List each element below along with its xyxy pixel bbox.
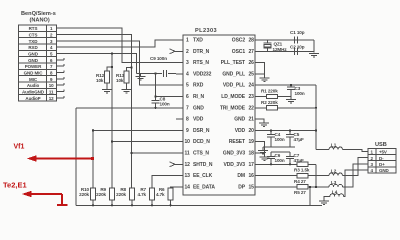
svg-text:7: 7: [50, 64, 53, 69]
svg-text:RTS: RTS: [29, 26, 38, 31]
svg-text:R2 220k: R2 220k: [261, 100, 278, 105]
svg-text:(NANO): (NANO): [30, 18, 50, 24]
svg-text:17: 17: [249, 162, 255, 168]
svg-text:10: 10: [49, 83, 54, 88]
svg-text:Te2,E1: Te2,E1: [3, 181, 27, 190]
svg-text:1: 1: [371, 150, 374, 155]
svg-text:USB: USB: [375, 142, 387, 148]
svg-text:6: 6: [50, 58, 53, 63]
svg-text:6: 6: [186, 94, 189, 100]
svg-text:+5V: +5V: [379, 150, 387, 155]
svg-text:3: 3: [50, 39, 53, 44]
svg-text:220k: 220k: [116, 192, 126, 197]
svg-text:GND: GND: [193, 105, 204, 111]
svg-text:18: 18: [249, 151, 255, 157]
svg-text:AudioGND: AudioGND: [22, 90, 45, 95]
svg-text:10k: 10k: [96, 78, 104, 83]
svg-text:R3 1.5k: R3 1.5k: [294, 168, 310, 173]
svg-text:RTS_N: RTS_N: [193, 60, 209, 66]
svg-text:13: 13: [185, 173, 191, 179]
svg-text:2: 2: [371, 156, 374, 161]
svg-text:Vf1: Vf1: [14, 144, 25, 151]
svg-text:BenQ/Siem-s: BenQ/Siem-s: [21, 11, 56, 17]
svg-text:Audio: Audio: [27, 83, 40, 88]
svg-text:TXD: TXD: [193, 38, 203, 44]
svg-text:LD_MODE: LD_MODE: [221, 94, 246, 100]
svg-text:C2 10p: C2 10p: [290, 45, 305, 50]
svg-text:28: 28: [249, 38, 255, 44]
svg-text:5: 5: [50, 52, 53, 57]
svg-text:26: 26: [249, 60, 255, 66]
svg-text:RXD: RXD: [28, 45, 38, 50]
svg-text:GND MIC: GND MIC: [24, 71, 44, 76]
svg-text:TXD: TXD: [29, 39, 39, 44]
svg-text:4.7k: 4.7k: [137, 192, 146, 197]
svg-text:24: 24: [249, 83, 255, 89]
svg-text:100n: 100n: [295, 91, 305, 96]
svg-text:PL2303: PL2303: [195, 28, 217, 34]
svg-text:4: 4: [186, 71, 189, 77]
svg-text:14: 14: [185, 184, 191, 190]
svg-text:PLL_TEST: PLL_TEST: [221, 60, 245, 66]
svg-text:22: 22: [249, 105, 255, 111]
svg-text:VDD_3V3: VDD_3V3: [223, 162, 245, 168]
svg-text:TRI_MODE: TRI_MODE: [220, 105, 246, 111]
svg-text:12: 12: [49, 96, 54, 101]
svg-text:OSC2: OSC2: [232, 38, 246, 44]
svg-text:GND_3V3: GND_3V3: [223, 151, 245, 157]
svg-text:1: 1: [50, 26, 53, 31]
svg-text:VDD: VDD: [193, 117, 204, 123]
svg-text:RESET: RESET: [229, 139, 245, 145]
svg-text:AudioP: AudioP: [25, 96, 40, 101]
svg-text:QZ1: QZ1: [274, 42, 283, 47]
svg-text:220k: 220k: [79, 192, 89, 197]
svg-text:EE_DATA: EE_DATA: [193, 184, 215, 190]
svg-text:D-: D-: [379, 156, 384, 161]
svg-text:47µF: 47µF: [294, 158, 304, 163]
svg-text:L4: L4: [332, 189, 338, 194]
svg-text:4: 4: [371, 168, 374, 173]
svg-text:EE_CLK: EE_CLK: [193, 173, 213, 179]
svg-text:CTS_N: CTS_N: [193, 151, 209, 157]
svg-text:100n: 100n: [160, 102, 170, 107]
svg-text:4.7k: 4.7k: [156, 192, 165, 197]
svg-text:C9 100n: C9 100n: [150, 56, 167, 61]
svg-text:5: 5: [186, 83, 189, 89]
svg-text:GND: GND: [234, 117, 245, 123]
svg-text:11: 11: [49, 90, 54, 95]
svg-text:220k: 220k: [96, 192, 106, 197]
svg-text:9: 9: [50, 77, 53, 82]
svg-text:SHTD_N: SHTD_N: [193, 162, 213, 168]
svg-text:27: 27: [249, 49, 255, 55]
svg-text:15: 15: [249, 184, 255, 190]
svg-text:L3: L3: [331, 180, 337, 185]
svg-text:16: 16: [249, 173, 255, 179]
svg-text:D+: D+: [379, 162, 385, 167]
svg-text:GND: GND: [28, 52, 39, 57]
svg-text:POWER: POWER: [25, 64, 42, 69]
svg-text:GND: GND: [28, 58, 39, 63]
svg-text:8: 8: [186, 117, 189, 123]
svg-text:R5 27: R5 27: [294, 190, 306, 195]
svg-text:19: 19: [249, 139, 255, 145]
svg-text:VDD_PLL: VDD_PLL: [223, 83, 245, 89]
svg-text:VDD232: VDD232: [193, 71, 212, 77]
svg-text:GND: GND: [379, 168, 390, 173]
svg-text:DM: DM: [237, 173, 245, 179]
svg-text:100n: 100n: [275, 137, 285, 142]
svg-text:OSC1: OSC1: [232, 49, 246, 55]
svg-text:DCD_N: DCD_N: [193, 139, 210, 145]
svg-text:10: 10: [185, 139, 191, 145]
svg-text:8: 8: [50, 71, 53, 76]
svg-text:CTS: CTS: [29, 33, 38, 38]
svg-text:VDD: VDD: [235, 128, 246, 134]
svg-text:R4 27: R4 27: [294, 179, 306, 184]
svg-text:7: 7: [186, 105, 189, 111]
svg-text:12MHz: 12MHz: [273, 47, 288, 52]
svg-text:DTR_N: DTR_N: [193, 49, 210, 55]
svg-text:1: 1: [186, 38, 189, 44]
svg-text:11: 11: [185, 151, 190, 157]
svg-text:RI_N: RI_N: [193, 94, 204, 100]
svg-text:DP: DP: [238, 184, 246, 190]
svg-text:20: 20: [249, 128, 255, 134]
svg-text:2: 2: [186, 49, 189, 55]
svg-text:21: 21: [249, 117, 255, 123]
svg-text:100n: 100n: [275, 158, 285, 163]
svg-text:DSR_N: DSR_N: [193, 128, 210, 134]
svg-text:2: 2: [50, 33, 53, 38]
svg-text:47µF: 47µF: [294, 137, 304, 142]
svg-text:10k: 10k: [116, 78, 124, 83]
svg-text:3: 3: [371, 162, 374, 167]
svg-text:3: 3: [186, 60, 189, 66]
svg-text:C1 10p: C1 10p: [290, 30, 305, 35]
svg-text:4: 4: [50, 45, 53, 50]
svg-text:RXD: RXD: [193, 83, 204, 89]
svg-text:25: 25: [249, 71, 255, 77]
svg-text:L1: L1: [331, 143, 337, 148]
svg-text:GND_PLL: GND_PLL: [222, 71, 245, 77]
svg-text:R1 220k: R1 220k: [261, 89, 278, 94]
svg-text:MIC: MIC: [29, 77, 38, 82]
svg-text:9: 9: [186, 128, 189, 134]
svg-text:12: 12: [185, 162, 191, 168]
svg-text:23: 23: [249, 94, 255, 100]
svg-text:L2: L2: [331, 169, 337, 174]
